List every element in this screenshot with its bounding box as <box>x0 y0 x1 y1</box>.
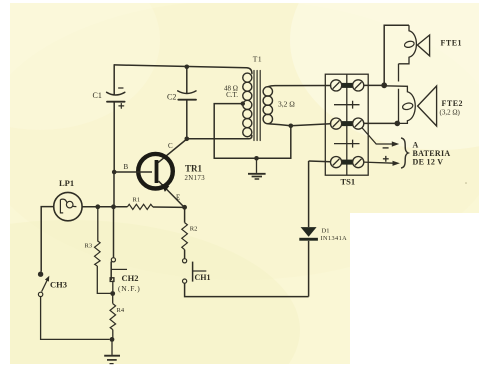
speaker FTE1 driver <box>399 25 417 123</box>
switch CH2 <box>110 258 127 292</box>
switch CH3 <box>38 272 110 340</box>
svg-text:TR1: TR1 <box>185 164 203 174</box>
svg-text:CH3: CH3 <box>50 280 67 290</box>
svg-text:C1: C1 <box>93 91 102 100</box>
svg-text:R1: R1 <box>133 197 141 204</box>
wire secondary junction to TS1 <box>291 124 331 126</box>
wire base column to R1 row <box>113 172 115 207</box>
wire column to CH2 <box>113 207 115 258</box>
svg-text:FTE2: FTE2 <box>442 99 464 108</box>
svg-text:FTE1: FTE1 <box>441 39 463 48</box>
wire C1 to base node <box>113 102 115 172</box>
node FTE2 bottom <box>395 121 401 127</box>
wire collector lead <box>158 139 187 163</box>
wire C2 to collector node <box>186 100 188 139</box>
svg-text:B: B <box>124 163 129 171</box>
wire base lead <box>114 171 152 173</box>
node base <box>112 170 117 175</box>
wire R1 to emitter node <box>153 206 185 208</box>
wire battery plus <box>364 161 400 166</box>
node rail-C2 <box>185 65 190 70</box>
node center tap <box>241 101 245 105</box>
wire secondary junction down <box>290 126 292 159</box>
wire secondary top to TS1 <box>268 86 331 87</box>
node common-ground <box>254 156 259 161</box>
transformer T1 secondary winding <box>263 87 272 124</box>
speaker FTE2 horn <box>418 86 437 126</box>
ground under R4 <box>104 339 120 363</box>
diode D1 <box>299 161 318 297</box>
capacitor C1 <box>107 88 125 108</box>
node R3 top <box>95 204 100 209</box>
svg-text:T1: T1 <box>253 55 262 64</box>
svg-text:R4: R4 <box>117 307 125 314</box>
wire lamp left <box>41 207 54 272</box>
wire FTE2 bottom to TS1 pair2 <box>364 122 398 124</box>
node speakers top <box>381 82 387 88</box>
switch CH1 <box>183 259 207 284</box>
wire secondary bottom to junction <box>268 124 291 126</box>
resistor R2 <box>182 223 188 250</box>
wire top rail <box>114 65 252 74</box>
wire lamp right row <box>82 206 127 208</box>
speaker FTE1 horn <box>417 35 429 56</box>
svg-text:3,2 Ω: 3,2 Ω <box>278 100 295 109</box>
svg-text:R3: R3 <box>85 243 93 250</box>
battery plus sign <box>383 156 389 162</box>
svg-text:(N.F.): (N.F.) <box>118 284 141 293</box>
wire TS1 pair1 right to speakers <box>364 25 409 85</box>
svg-text:TS1: TS1 <box>341 177 356 187</box>
transformer T1 core <box>254 71 260 141</box>
wire center tap <box>214 104 243 159</box>
svg-text:(3,2 Ω): (3,2 Ω) <box>440 109 461 117</box>
resistor R1 <box>127 204 152 209</box>
wire collector node to primary bottom <box>187 136 252 139</box>
resistor R4 <box>110 294 116 340</box>
node secondary bottom <box>289 124 294 129</box>
node base column row <box>111 204 116 209</box>
svg-text:CH2: CH2 <box>122 273 139 283</box>
wire bottom common <box>214 157 291 159</box>
transistor TR1 <box>114 154 184 208</box>
ground under transformer <box>248 158 266 179</box>
svg-text:IN1341A: IN1341A <box>321 235 348 242</box>
wire emitter node to R2 <box>184 207 186 222</box>
svg-text:2N173: 2N173 <box>185 175 206 182</box>
node R4 bottom <box>110 337 115 342</box>
svg-text:C2: C2 <box>167 93 176 102</box>
terminal strip TS1 body <box>325 74 368 175</box>
wire CH1 bottom to diode column <box>185 283 309 296</box>
svg-text:C.T.: C.T. <box>226 91 238 99</box>
terminal strip TS1 screws <box>331 80 364 168</box>
svg-text:LP1: LP1 <box>59 178 74 188</box>
svg-text:E: E <box>176 194 180 202</box>
battery brace <box>401 138 408 168</box>
battery minus sign <box>383 147 389 149</box>
svg-text:CH1: CH1 <box>195 273 211 282</box>
wire emitter lead <box>159 181 185 208</box>
wire battery minus <box>362 128 399 147</box>
transformer T1 primary winding <box>243 73 252 137</box>
node collector junction <box>185 137 190 142</box>
lamp LP1 <box>54 192 82 220</box>
svg-text:D1: D1 <box>322 228 330 235</box>
junction dots group 1 <box>95 65 293 210</box>
wire C1 column upper <box>113 65 115 95</box>
resistor R3 <box>95 207 111 294</box>
svg-text:C: C <box>168 142 173 150</box>
wire R2 to CH1 <box>184 250 186 259</box>
paper speck <box>465 182 467 184</box>
node CH2 bottom <box>110 291 115 296</box>
node emitter junction <box>182 205 187 210</box>
svg-text:R2: R2 <box>190 226 198 233</box>
svg-text:DE 12 V: DE 12 V <box>413 158 444 167</box>
wire C2 column upper <box>186 67 188 94</box>
wire diode top to TS1 <box>309 160 331 163</box>
speaker FTE2 driver <box>384 86 415 124</box>
capacitor C2 <box>178 91 196 100</box>
